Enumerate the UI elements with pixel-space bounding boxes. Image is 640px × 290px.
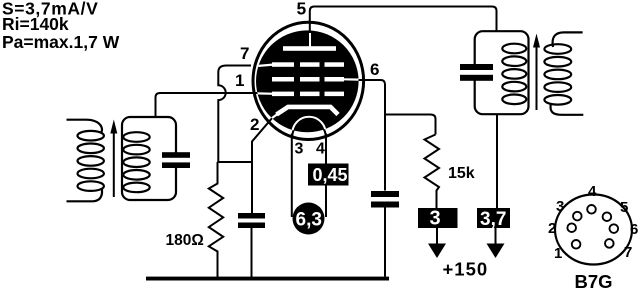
grid g2 row — [272, 77, 344, 82]
svg-text:1: 1 — [554, 245, 562, 262]
capacitor C5 (tank cap, on frame left edge) — [460, 64, 493, 81]
svg-text:3: 3 — [430, 208, 441, 230]
transformer T2 primary coil — [502, 44, 526, 104]
transformer T1 tank frame — [122, 117, 176, 200]
svg-text:6: 6 — [370, 60, 379, 79]
B7G pin hole 7 — [605, 239, 614, 248]
wire cathode pin 2 diagonal — [252, 117, 273, 214]
transformer T1 primary coil — [78, 131, 104, 191]
transformer T2 coupling arrow — [533, 34, 540, 111]
grid g3 stub to pin 7 — [257, 65, 273, 66]
svg-text:6: 6 — [630, 221, 638, 238]
svg-text:4: 4 — [316, 141, 325, 158]
svg-text:3: 3 — [556, 198, 564, 215]
svg-text:15k: 15k — [448, 165, 475, 182]
tube V1 heater arc (black part) — [292, 120, 326, 137]
capacitor C1 (tank cap, on frame right edge) — [162, 152, 190, 168]
transformer T1 secondary coil — [123, 132, 149, 192]
B7G pin hole 4 — [587, 205, 596, 214]
voltage box 3,7 — [477, 208, 510, 230]
tube V1 heater leg pin 4 — [325, 134, 327, 218]
B7G pin hole 2 — [567, 223, 576, 232]
wire pin 7 with hop over pin-1 wire — [218, 66, 251, 163]
capacitor C2 (cathode bypass) — [238, 213, 265, 277]
transformer T1 primary bottom lead — [67, 189, 103, 201]
svg-text:3,7: 3,7 — [480, 209, 506, 230]
arrow to +150 (left) — [428, 228, 446, 258]
resistor R2 15k — [425, 135, 440, 209]
tube V1 heater leg pin 3 — [291, 134, 293, 218]
wire tank T1 top to grid g1 (pin 1) — [156, 93, 260, 117]
svg-text:4: 4 — [588, 183, 597, 200]
transformer T2 secondary top lead — [553, 32, 583, 47]
transformer T2 secondary coil — [544, 44, 571, 104]
heater current box 0,45 — [308, 164, 349, 186]
tube V1 envelope — [253, 22, 364, 139]
grid g3 row — [272, 62, 344, 67]
voltage box 3 — [418, 208, 458, 230]
transformer T2 tank frame — [475, 31, 529, 114]
tube V1 white internals — [257, 33, 359, 134]
wire anode pin 5 to top rail to T2 — [310, 7, 497, 41]
svg-text:2: 2 — [250, 115, 259, 134]
transformer T1 coupling arrow — [110, 120, 117, 198]
svg-text:7: 7 — [624, 244, 632, 261]
arrow to +150 (right) — [487, 228, 505, 258]
svg-text:1: 1 — [235, 71, 244, 90]
svg-text:0,45: 0,45 — [313, 165, 348, 185]
B7G pin hole 1 — [572, 240, 581, 249]
tube V1 inner disc — [256, 30, 359, 132]
svg-text:6,3: 6,3 — [296, 210, 322, 231]
grid g1 stub to pin 1 — [257, 92, 275, 95]
grid g2 stub to pin 6 — [344, 78, 359, 80]
wire pin6 branch to R2 — [385, 115, 436, 135]
B7G pin hole 5 — [603, 212, 612, 221]
B7G pin hole 3 — [573, 212, 582, 221]
cathode stub to pin 2 — [268, 114, 278, 121]
wire cathode node connector — [217, 161, 253, 163]
anode bar — [283, 46, 336, 51]
B7G pin hole 6 — [610, 224, 619, 233]
svg-text:Ri=140k: Ri=140k — [2, 14, 69, 34]
heater arc white — [292, 117, 326, 134]
svg-text:+150: +150 — [443, 259, 489, 280]
grid g1 row — [272, 92, 344, 97]
svg-text:3: 3 — [295, 141, 304, 158]
svg-text:5: 5 — [297, 0, 307, 19]
transformer T2 secondary bottom lead — [550, 103, 583, 115]
B7G socket outline — [555, 195, 632, 265]
heater voltage circle 6,3 — [293, 203, 325, 235]
resistor R1 180 ohm — [209, 162, 223, 277]
ground rail (bottom) — [146, 277, 389, 281]
svg-text:Pa=max.1,7 W: Pa=max.1,7 W — [2, 32, 120, 52]
cathode chevron — [277, 107, 339, 115]
svg-text:2: 2 — [548, 220, 556, 237]
wire screen grid pin 6 to decoupling — [356, 80, 385, 191]
svg-text:7: 7 — [240, 44, 249, 63]
transformer T1 primary top lead — [67, 120, 103, 133]
capacitor C4 (screen decoupling) — [371, 191, 399, 277]
anode lead white — [309, 33, 311, 47]
svg-text:5: 5 — [620, 199, 628, 216]
svg-text:B7G: B7G — [575, 271, 613, 290]
svg-text:180Ω: 180Ω — [166, 232, 204, 249]
wire T2 tank bottom to box 3,7 — [496, 114, 498, 208]
